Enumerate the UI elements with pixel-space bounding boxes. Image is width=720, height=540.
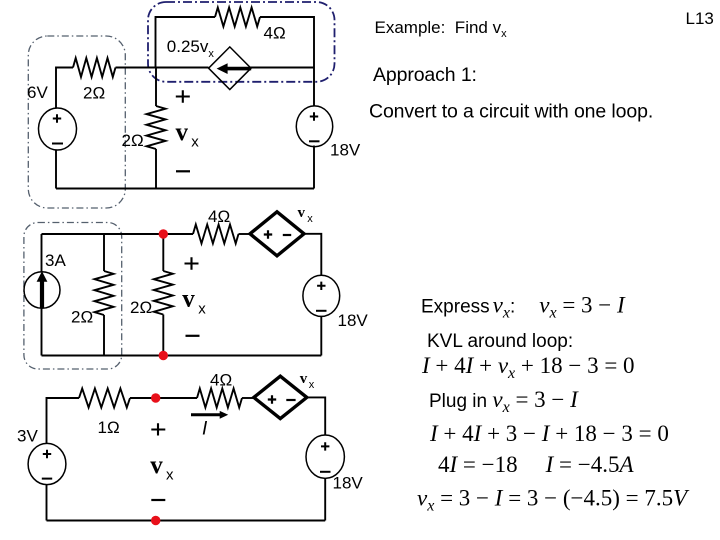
svg-text:2Ω: 2Ω xyxy=(122,131,144,150)
voltage source V1 6V xyxy=(39,108,77,150)
svg-text:vx = 3 − I = 3 − (−4.5) = 7.5V: vx = 3 − I = 3 − (−4.5) = 7.5V xyxy=(417,486,690,515)
vx plus sign xyxy=(176,90,190,102)
svg-text:I + 4I + 3 − I + 18 − 3 = 0: I + 4I + 3 − I + 18 − 3 = 0 xyxy=(429,421,669,446)
svg-text:x: x xyxy=(198,301,206,318)
arrow inside dependent source (points left) xyxy=(217,63,252,74)
wire: 3A top xyxy=(41,234,43,272)
svg-text:x: x xyxy=(166,467,174,484)
current source 3A xyxy=(24,272,60,309)
wire: diamond right vertex to right branch xyxy=(251,67,315,69)
svg-text:18V: 18V xyxy=(333,474,364,493)
wire: 18V bottom (circuit 2) xyxy=(320,316,322,355)
resistor R 4ohm (circuit 3) xyxy=(197,389,242,408)
diamond plus sign (circuit 3) xyxy=(268,395,276,403)
resistor R 2ohm vertical (vx resistor) xyxy=(147,68,166,189)
wire: bottom rail circuit 1 xyxy=(56,188,314,190)
resistor R 4ohm (top loop) xyxy=(215,8,260,27)
wire: top loop left vertical xyxy=(156,17,216,68)
resistor R 2ohm (parallel with 3A) xyxy=(95,234,114,356)
voltage source 18V (circuit 1) xyxy=(296,106,332,147)
wire: diamond to 18V (circuit 2) xyxy=(304,234,321,275)
18V plus sign xyxy=(310,112,318,120)
diamond minus sign (circuit 3) xyxy=(286,399,295,401)
svg-text:x: x xyxy=(307,213,313,225)
resistor R 2ohm (vx resistor circuit 2) xyxy=(154,234,173,356)
svg-text:1Ω: 1Ω xyxy=(98,418,120,437)
V1 plus sign xyxy=(53,114,61,122)
svg-text:x: x xyxy=(191,133,199,150)
diamond plus sign (circuit 2) xyxy=(264,230,272,238)
svg-text:v: v xyxy=(176,119,189,146)
svg-text:L13: L13 xyxy=(686,9,714,28)
svg-text:4Ω: 4Ω xyxy=(264,24,286,43)
node dot bottom (circuit 3) xyxy=(151,516,160,525)
vx minus sign (circuit 2) xyxy=(186,335,200,337)
svg-text:18V: 18V xyxy=(330,141,361,160)
wire: top loop right side down to 18V xyxy=(260,17,314,106)
svg-text:v: v xyxy=(298,205,306,221)
svg-text:Approach 1:: Approach 1: xyxy=(373,64,477,86)
svg-text:I + 4I + vx + 18 − 3 = 0: I + 4I + vx + 18 − 3 = 0 xyxy=(421,353,635,382)
wire: top rail circuit 2 xyxy=(42,233,194,235)
3V plus sign xyxy=(43,450,51,458)
18V plus sign (circuit 2) xyxy=(317,282,325,290)
svg-text:x: x xyxy=(309,379,315,391)
vx plus sign (circuit 3) xyxy=(151,423,165,435)
3V minus sign xyxy=(42,478,52,480)
vx plus sign (circuit 2) xyxy=(185,257,199,269)
svg-text:Example: Find vx: Example: Find vx xyxy=(375,18,508,40)
vx minus sign (circuit 3) xyxy=(151,499,165,501)
wire: 6V bottom xyxy=(55,150,57,189)
svg-text:2Ω: 2Ω xyxy=(130,298,152,317)
node dot bottom (circuit 2) xyxy=(159,351,168,360)
wire: 4ohm to diamond (circuit 3) xyxy=(242,397,254,399)
18V minus sign (circuit 3) xyxy=(320,471,331,473)
wire: bottom rail circuit 2 xyxy=(42,355,322,357)
svg-text:v: v xyxy=(182,286,195,313)
voltage source 3V xyxy=(28,443,66,484)
wire: diamond to 18V (circuit 3) xyxy=(307,397,325,435)
wire: 18V bottom xyxy=(313,146,315,189)
svg-text:v: v xyxy=(150,452,163,479)
svg-text:Convert to a circuit with one: Convert to a circuit with one loop. xyxy=(369,101,653,123)
wire: 1ohm to 4ohm through node xyxy=(130,397,197,399)
dash-dot box (3A + 2ohm group) xyxy=(24,223,122,370)
resistor R 2ohm (series, top-left) xyxy=(73,58,116,77)
diamond minus sign (circuit 2) xyxy=(283,234,291,236)
svg-text:KVL around loop:: KVL around loop: xyxy=(427,331,573,352)
svg-text:4Ω: 4Ω xyxy=(208,207,230,226)
svg-text:18V: 18V xyxy=(338,311,369,330)
svg-text:v: v xyxy=(300,371,308,387)
18V plus sign (circuit 3) xyxy=(321,442,329,450)
svg-text:I: I xyxy=(202,419,208,440)
svg-text:2Ω: 2Ω xyxy=(71,308,93,327)
voltage source 18V (circuit 3) xyxy=(306,435,344,478)
svg-text:2Ω: 2Ω xyxy=(83,84,105,103)
18V minus sign xyxy=(309,140,320,142)
wire: 3A bottom xyxy=(41,308,43,355)
wire: 18V bottom (circuit 3) xyxy=(324,478,326,520)
wire: 3V bottom xyxy=(46,485,48,521)
voltage source 18V (circuit 2) xyxy=(303,275,340,316)
node dot top (circuit 3) xyxy=(151,393,160,402)
resistor R 4ohm (circuit 2) xyxy=(193,225,239,244)
wire: 4ohm to diamond xyxy=(239,233,251,235)
dash-dot source-transformation box (6V + 2ohm group) xyxy=(28,36,125,208)
current arrow I xyxy=(191,411,228,419)
18V minus sign (circuit 2) xyxy=(316,310,327,312)
wire: 3V top to 1ohm xyxy=(47,398,80,444)
node dot top (circuit 2) xyxy=(159,229,168,238)
dash-dot box around 4ohm / 0.25vx group xyxy=(148,2,335,82)
V1 minus sign xyxy=(52,143,63,145)
wire: 2ohm to diamond (top node) xyxy=(116,67,209,69)
svg-text:3V: 3V xyxy=(17,427,38,446)
vx minus sign xyxy=(176,170,190,172)
dependent voltage source vx (diamond circuit 2) xyxy=(250,212,304,256)
resistor R 1ohm xyxy=(79,389,130,408)
wire: bottom rail circuit 3 xyxy=(47,520,326,522)
wire: 6V top to 2ohm resistor xyxy=(56,68,73,109)
3A arrow (up) xyxy=(37,271,48,308)
svg-text:6V: 6V xyxy=(27,83,48,102)
dependent current source 0.25vx (diamond) xyxy=(209,47,251,90)
dependent voltage source vx (diamond circuit 3) xyxy=(254,376,307,418)
svg-text:3A: 3A xyxy=(45,251,66,270)
svg-text:4Ω: 4Ω xyxy=(210,371,232,390)
